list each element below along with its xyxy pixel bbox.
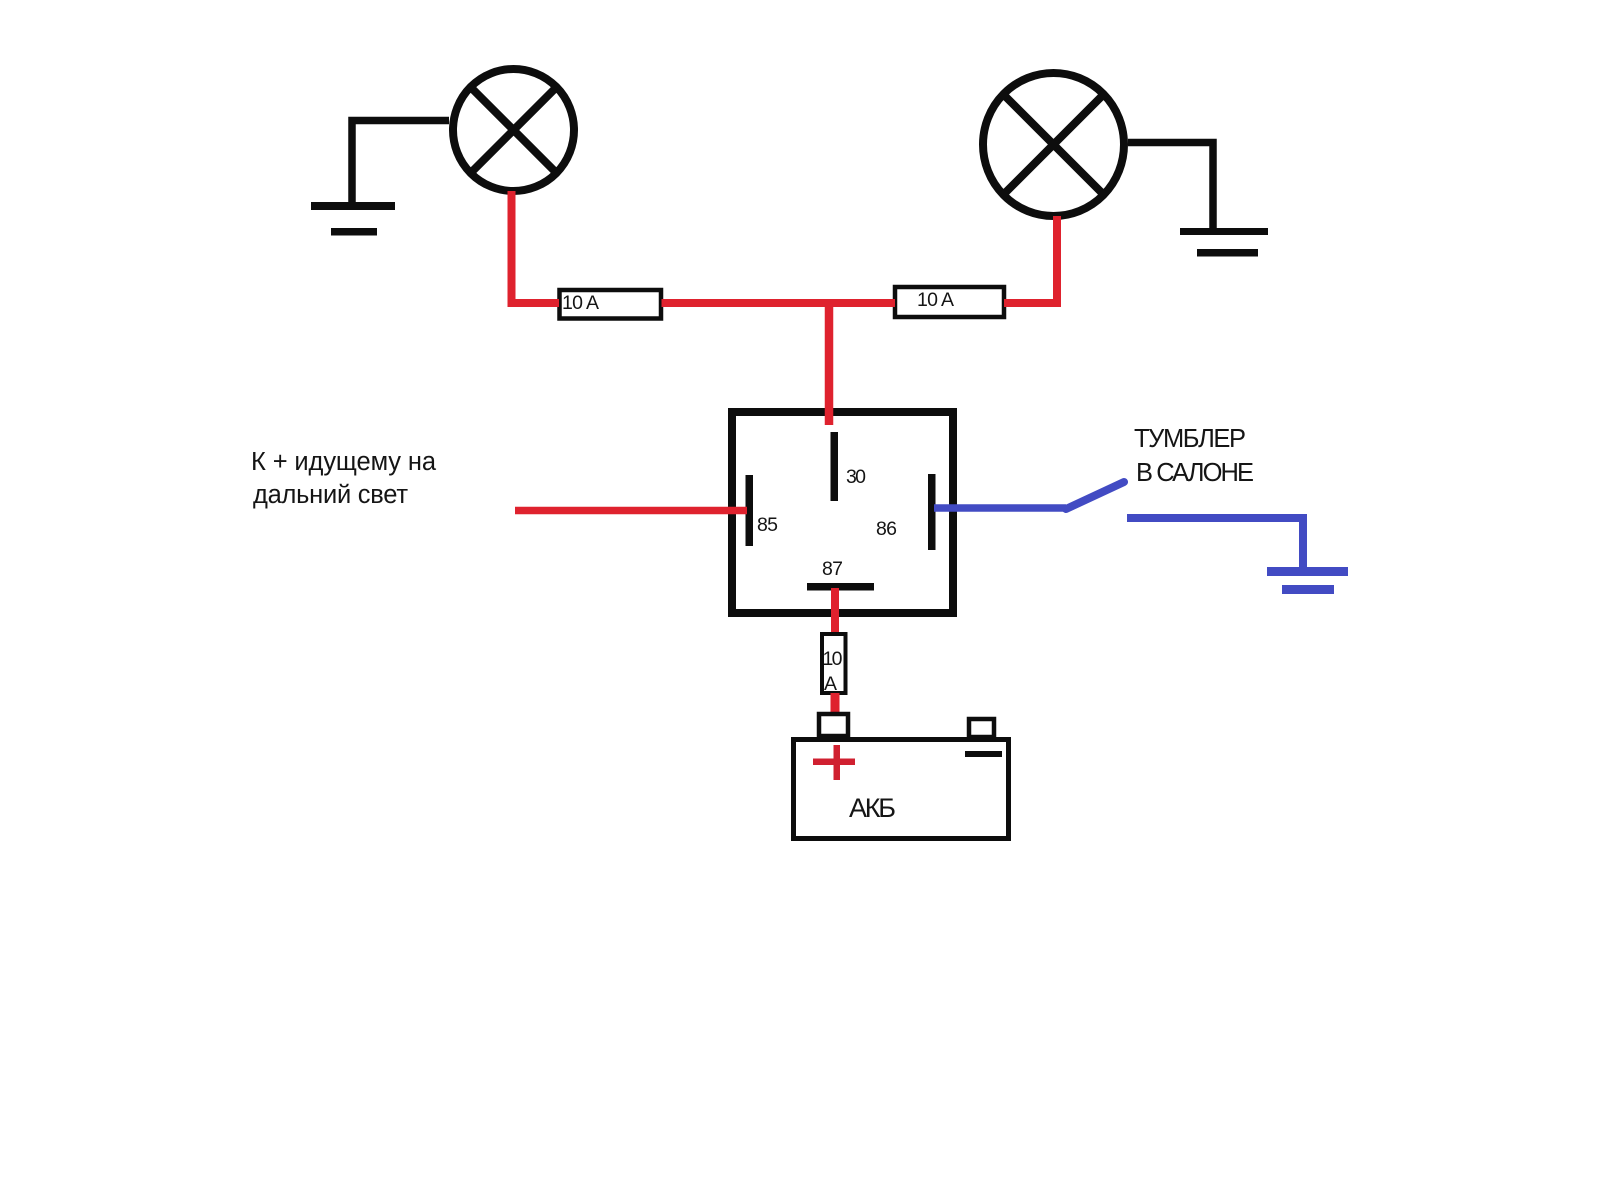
ground blue (switch return) bbox=[1267, 567, 1348, 594]
fuse F2 body bbox=[895, 287, 1004, 317]
relay pin 87 blade bbox=[807, 583, 874, 591]
battery GB1 negative terminal bbox=[969, 719, 994, 737]
battery plus mark bbox=[813, 745, 855, 780]
wire red fuse F3 to battery positive terminal bbox=[831, 693, 840, 716]
wire blue switch to blue ground bbox=[1127, 518, 1303, 570]
wire red lamp HL1 down to fuse F1 bbox=[512, 191, 560, 303]
wire red relay pin 87 down to fuse F3 bbox=[831, 588, 839, 634]
wire lamp HL2 to right ground bbox=[1128, 143, 1213, 233]
fuse F1 body bbox=[560, 290, 662, 319]
svg-text:К + идущему на: К + идущему на bbox=[251, 448, 437, 476]
svg-text:10 A: 10 A bbox=[917, 289, 954, 311]
svg-text:10: 10 bbox=[823, 648, 843, 670]
svg-text:86: 86 bbox=[876, 518, 897, 540]
svg-text:В САЛОНЕ: В САЛОНЕ bbox=[1136, 459, 1254, 487]
svg-text:ТУМБЛЕР: ТУМБЛЕР bbox=[1134, 425, 1246, 453]
wire red fuse F1 to fuse F2 through node A bbox=[662, 299, 896, 307]
svg-text:A: A bbox=[824, 673, 837, 695]
relay pin 86 blade bbox=[928, 474, 936, 550]
battery minus mark bbox=[965, 751, 1002, 757]
wire red high-beam feed to relay pin 85 bbox=[515, 507, 747, 515]
wire blue relay pin 86 to switch bbox=[934, 504, 1066, 512]
wire lamp HL1 to left ground bbox=[352, 121, 449, 208]
relay pin 85 blade bbox=[746, 475, 754, 546]
ground right bbox=[1180, 228, 1268, 257]
node A junction drop to relay pin 30 bbox=[825, 303, 834, 425]
svg-text:дальний свет: дальний свет bbox=[253, 481, 408, 509]
ground left bbox=[311, 202, 395, 236]
svg-text:30: 30 bbox=[846, 466, 866, 488]
svg-text:85: 85 bbox=[757, 514, 778, 536]
wire red lamp HL2 down to fuse F2 bbox=[1004, 216, 1061, 307]
battery GB1 body bbox=[794, 740, 1009, 839]
battery GB1 positive terminal bbox=[819, 714, 848, 736]
fuse F3 body bbox=[822, 634, 846, 693]
lamp HL2 bbox=[983, 73, 1124, 216]
switch SA1 lever bbox=[1066, 482, 1124, 509]
svg-text:87: 87 bbox=[822, 558, 843, 580]
relay pin 30 blade bbox=[831, 432, 839, 501]
svg-text:10 A: 10 A bbox=[562, 292, 599, 314]
svg-text:АКБ: АКБ bbox=[849, 793, 896, 823]
relay K1 body bbox=[732, 412, 953, 613]
lamp HL1 bbox=[453, 69, 574, 191]
